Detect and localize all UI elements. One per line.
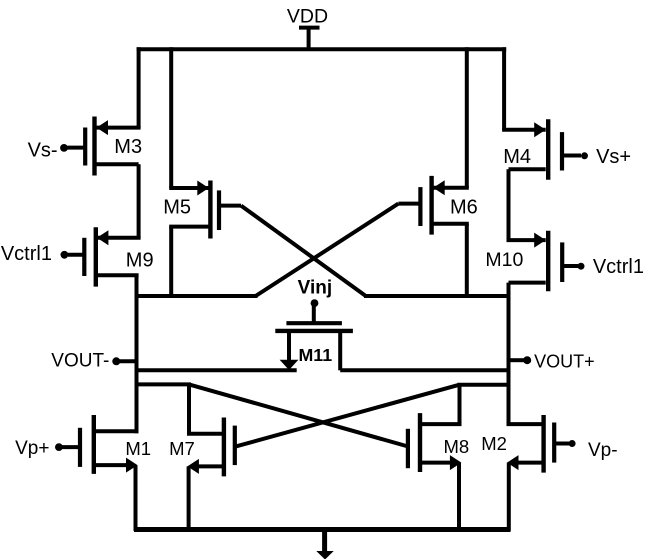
wire M3 source to M9 drain	[137, 164, 141, 238]
wire M8 drain feed	[458, 385, 462, 424]
wire M7 gate cross-coupling diagonal	[236, 385, 459, 447]
transistor M10	[485, 231, 578, 291]
svg-text:M5: M5	[163, 197, 191, 219]
node Vs+ terminal dot	[581, 152, 588, 159]
wire right column M10 source down to M2 drain	[507, 283, 511, 425]
wire VDD top rail	[137, 47, 507, 51]
transistor M1	[62, 415, 151, 474]
svg-text:VOUT+: VOUT+	[534, 352, 595, 372]
wire M6 source drop	[465, 224, 469, 296]
svg-text:Vs+: Vs+	[596, 146, 631, 168]
transistor M7	[169, 418, 235, 477]
svg-text:M3: M3	[114, 136, 142, 158]
wire M4 drain feed from rail	[502, 47, 506, 129]
svg-text:Vinj: Vinj	[298, 277, 333, 298]
svg-text:M10: M10	[485, 249, 523, 271]
svg-text:M7: M7	[169, 438, 195, 459]
node Vp+ terminal dot	[55, 443, 63, 451]
wire M5 gate cross-coupling diagonal	[241, 206, 366, 296]
svg-text:Vs-: Vs-	[28, 140, 58, 162]
wire M11 right lead to VOUT+ column	[340, 368, 510, 372]
svg-text:M8: M8	[443, 436, 469, 457]
wire upper left net at y296	[135, 294, 258, 298]
svg-text:Vctrl1: Vctrl1	[593, 256, 644, 278]
wire M2 source drop	[507, 463, 511, 531]
wire VOUT+ dot lead	[509, 358, 525, 362]
node Vctrl1 right terminal dot	[578, 263, 585, 270]
transistor M4	[502, 119, 581, 180]
svg-text:VDD: VDD	[287, 6, 328, 28]
svg-text:Vp-: Vp-	[588, 440, 618, 461]
transistor M8	[408, 413, 469, 472]
svg-text:VOUT-: VOUT-	[51, 351, 109, 372]
wire M3 drain feed from rail	[137, 47, 141, 127]
transistor M9	[68, 227, 154, 286]
svg-text:Vctrl1: Vctrl1	[1, 243, 52, 265]
transistor M6	[398, 176, 477, 235]
wire lower right net at y384	[458, 383, 511, 387]
wire VOUT- dot lead	[118, 359, 137, 363]
wire VOUT- to M11 left lead	[135, 368, 297, 372]
svg-text:M11: M11	[298, 345, 332, 365]
svg-text:M4: M4	[503, 146, 531, 168]
wire lower left net at y384	[135, 382, 192, 386]
wire M7 source drop	[187, 466, 191, 531]
node Vs- terminal dot	[60, 144, 68, 152]
transistor M5	[163, 181, 241, 239]
wire left column M9 source down to M1 drain	[135, 275, 139, 433]
svg-text:M1: M1	[125, 438, 151, 459]
ground stub	[322, 530, 327, 553]
wire M8 source drop	[457, 463, 461, 531]
wire M7 drain feed	[187, 384, 191, 433]
ground arrow	[316, 551, 333, 559]
svg-text:M6: M6	[450, 197, 478, 219]
svg-text:Vp+: Vp+	[15, 438, 49, 459]
VDD supply symbol	[299, 28, 320, 50]
svg-text:M2: M2	[481, 433, 507, 454]
svg-text:M9: M9	[126, 249, 154, 271]
transistor M11	[275, 303, 353, 370]
wire M1 source drop	[134, 465, 138, 531]
node Vctrl1 left terminal dot	[61, 251, 69, 259]
node Vinj terminal dot	[311, 299, 319, 307]
wire bottom rail	[134, 527, 511, 532]
wire M6 gate cross-coupling diagonal	[256, 204, 399, 296]
wire M8 gate cross-coupling diagonal	[189, 384, 406, 446]
wire upper right net at y296	[364, 294, 511, 298]
node VOUT- terminal dot	[112, 357, 120, 365]
transistor M3	[68, 117, 143, 176]
wire M4 source to M10 drain	[507, 169, 511, 240]
node Vp- terminal dot	[569, 440, 576, 447]
wire M5 source drop	[169, 227, 173, 296]
transistor M2	[481, 415, 569, 473]
wire M6 drain feed from rail	[465, 47, 469, 188]
wire M5 drain feed from rail	[169, 47, 173, 188]
node VOUT+ terminal dot	[523, 356, 531, 364]
